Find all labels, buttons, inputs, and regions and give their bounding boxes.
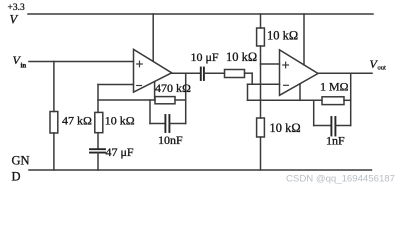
- svg-text:1nF: 1nF: [326, 134, 345, 148]
- resistor R6 10k lower: [257, 118, 265, 137]
- wire U1 bottom stub: [154, 82, 156, 100]
- wire C2 loop bottom right: [170, 123, 186, 125]
- svg-text:V: V: [10, 13, 19, 27]
- ground rail: [29, 169, 372, 171]
- resistor R4 10k series: [225, 70, 245, 78]
- wire inverting node vertical: [97, 85, 99, 113]
- wire C4 loop bottom right: [336, 125, 351, 127]
- op-amp U1 minus sign: [137, 85, 142, 87]
- svg-text:10 kΩ: 10 kΩ: [105, 114, 135, 128]
- +3.3V supply rail: [28, 13, 373, 15]
- wire U1 output: [172, 72, 201, 74]
- wire 47k bottom leg: [53, 133, 55, 170]
- wire U2 power stub: [303, 14, 305, 65]
- wire U2 output: [318, 72, 372, 74]
- wire U2 bottom stub: [299, 84, 301, 100]
- wire feedback drop 2: [247, 84, 249, 100]
- wire C2 loop bottom left: [150, 123, 165, 125]
- svg-text:D: D: [12, 170, 21, 184]
- svg-text:47 kΩ: 47 kΩ: [62, 114, 92, 128]
- wire feedback vertical 1: [185, 73, 187, 123]
- op-amp U1: [134, 49, 172, 92]
- wire feedback vertical 2: [350, 73, 352, 125]
- op-amp U2 plus sign: [283, 64, 289, 66]
- wire C2 loop left: [149, 100, 151, 124]
- wire feedback row 2 left: [248, 99, 323, 101]
- capacitor C1 47uF: [90, 148, 105, 150]
- resistor R1 47k: [50, 112, 58, 134]
- wire U2 non-inverting input: [261, 63, 280, 65]
- wire U1 inverting input: [98, 84, 134, 86]
- wire U1 power stub: [152, 14, 154, 61]
- wire Vin input: [29, 61, 134, 63]
- svg-text:1 MΩ: 1 MΩ: [320, 80, 349, 94]
- wire 47k top leg: [53, 62, 55, 112]
- svg-text:10 μF: 10 μF: [191, 50, 219, 64]
- svg-text:out: out: [378, 65, 387, 72]
- capacitor C2 10nF: [164, 115, 166, 132]
- wire C4 loop left: [313, 100, 315, 125]
- svg-text:10nF: 10nF: [158, 133, 183, 147]
- wire U2 inverting input: [248, 83, 280, 85]
- svg-text:470 kΩ: 470 kΩ: [155, 81, 191, 95]
- op-amp U1 plus sign: [137, 63, 143, 65]
- wire 10uF to R4: [204, 72, 225, 74]
- resistor R3 470k: [155, 97, 175, 104]
- svg-text:10 kΩ: 10 kΩ: [270, 121, 301, 135]
- op-amp U2: [280, 50, 319, 95]
- wire feedback row 1 left: [98, 99, 155, 101]
- wire feedback row 1 right: [175, 99, 186, 101]
- svg-text:47 μF: 47 μF: [106, 145, 134, 159]
- svg-text:in: in: [21, 63, 27, 70]
- resistor R5 10k upper: [257, 28, 265, 46]
- resistor R2 10k: [95, 112, 103, 132]
- wire divider middle: [260, 46, 262, 118]
- wire R4 to step: [245, 72, 253, 74]
- svg-text:10 kΩ: 10 kΩ: [267, 29, 298, 43]
- wire C4 loop bottom left: [314, 125, 331, 127]
- op-amp U2 minus sign: [284, 84, 289, 86]
- svg-text:+3.3: +3.3: [8, 3, 25, 13]
- svg-text:10 kΩ: 10 kΩ: [226, 50, 257, 64]
- capacitor C4 1nF: [330, 117, 332, 136]
- capacitor C3 10uF: [200, 68, 202, 81]
- wire divider top leg: [260, 14, 262, 28]
- wire 47uF to ground: [97, 153, 99, 170]
- wire divider bottom leg: [260, 137, 262, 170]
- resistor R7 1M: [322, 97, 344, 105]
- wire feedback row 2 right: [344, 99, 351, 101]
- svg-text:GN: GN: [12, 154, 30, 168]
- svg-text:CSDN @qq_1694456187: CSDN @qq_1694456187: [286, 174, 395, 185]
- wire step down: [251, 73, 253, 84]
- wire 10k to cap: [97, 133, 99, 150]
